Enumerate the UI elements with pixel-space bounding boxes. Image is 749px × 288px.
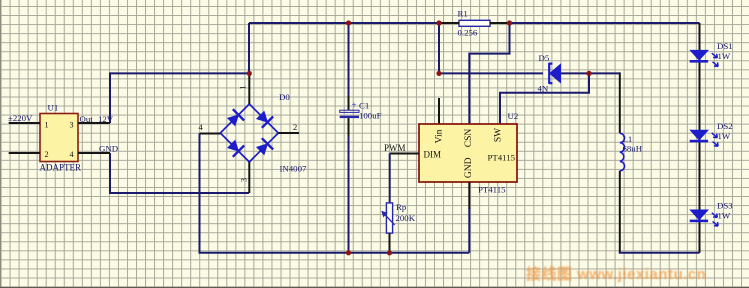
junction ground rail / Rp (387, 250, 392, 255)
adapter U1 (40, 103, 82, 173)
svg-text:L1: L1 (623, 134, 633, 144)
diode D0 lower-left (226, 138, 244, 156)
svg-text:C1: C1 (359, 101, 369, 111)
svg-text:4N: 4N (538, 84, 549, 94)
capacitor C1 (340, 100, 382, 121)
wire C1 pin dark segment (348, 96, 350, 136)
pin U1-2 (9, 152, 40, 154)
svg-text:1W: 1W (718, 211, 731, 221)
pin U2 GND (468, 182, 470, 209)
svg-text:Rp: Rp (396, 202, 407, 212)
wire 12V horizontal (110, 72, 249, 74)
svg-text:1W: 1W (718, 51, 731, 61)
svg-text:200K: 200K (396, 213, 416, 223)
pin Rp bottom (389, 233, 391, 253)
wire CSN branch (469, 23, 510, 124)
svg-text:DS2: DS2 (717, 121, 733, 131)
svg-text:ADAPTER: ADAPTER (40, 162, 82, 172)
svg-text:DS3: DS3 (717, 201, 733, 211)
svg-text:U2: U2 (508, 111, 519, 121)
wire SW branch (500, 73, 590, 124)
junction top rail / C1 (346, 20, 351, 25)
svg-text:PT4115: PT4115 (478, 185, 506, 195)
svg-text:D0: D0 (279, 92, 290, 102)
junction 12V / bridge pin1 (247, 71, 252, 76)
wire top rail (249, 22, 700, 24)
watermark (526, 263, 736, 284)
svg-text:1: 1 (45, 121, 49, 130)
svg-text:2: 2 (293, 122, 297, 132)
wire GND vertical from U1 pin4 (109, 153, 111, 193)
diode D0 upper-left (226, 109, 244, 127)
op chip U2 PT4115 (419, 111, 518, 195)
wire top-left vertical (248, 23, 250, 73)
image border bottom (0, 287, 749, 288)
pin D0-2 (278, 132, 299, 134)
svg-text:4: 4 (70, 150, 74, 159)
pin D0-4 (200, 133, 221, 135)
svg-text:SW: SW (494, 128, 504, 142)
wire C1 branch (348, 23, 350, 253)
svg-text:DIM: DIM (424, 150, 442, 160)
junction top rail / CSN (507, 20, 512, 25)
LED DS3 (690, 201, 734, 226)
svg-text:PWM: PWM (384, 143, 406, 153)
diode D0 lower-right (255, 138, 273, 156)
wire DIM to Rp (389, 154, 391, 204)
svg-text:PT4115: PT4115 (488, 153, 516, 163)
pin U1-4 (78, 152, 110, 154)
svg-text:+: + (352, 100, 357, 110)
ground rail bottom left (199, 134, 470, 253)
svg-text:1W: 1W (718, 131, 731, 141)
svg-text:DS1: DS1 (717, 41, 733, 51)
svg-text:U1: U1 (48, 103, 59, 113)
wire GND to rail (468, 208, 470, 253)
potentiometer Rp (382, 202, 416, 233)
pin U2 DIM (390, 153, 419, 155)
diode D0 upper-right (255, 109, 273, 127)
pin U1-3 (78, 122, 110, 124)
wire 12V vertical (109, 72, 111, 123)
svg-text:R1: R1 (458, 9, 468, 19)
svg-text:68uH: 68uH (623, 144, 643, 154)
svg-text:IN4007: IN4007 (280, 164, 307, 174)
junction D5 / SW (586, 71, 591, 76)
junction top rail / Vin (436, 20, 441, 25)
svg-text:±220V: ±220V (8, 113, 33, 123)
svg-text:3: 3 (239, 178, 249, 182)
svg-text:D5: D5 (539, 53, 550, 63)
wire GND horizontal to bridge pin3 (109, 192, 249, 194)
diode D5 (538, 53, 561, 94)
LED DS1 (690, 41, 733, 66)
svg-text:0.256: 0.256 (458, 28, 478, 38)
pin U1-1 (9, 122, 40, 124)
pin R1 left (439, 22, 459, 24)
pin D0-1 (248, 73, 250, 104)
LED string wire (699, 23, 701, 253)
wire Vin branch (438, 23, 440, 73)
svg-text:CSN: CSN (464, 129, 474, 148)
pin Vin dark segment (438, 98, 440, 124)
svg-text:100uF: 100uF (359, 111, 382, 121)
bridge D0 diamond (220, 104, 278, 162)
LED DS2 (690, 121, 733, 146)
bottom right rail (619, 252, 700, 254)
svg-text:GND: GND (464, 157, 474, 178)
svg-text:Vin: Vin (435, 129, 445, 143)
pin D0-3 (248, 162, 250, 193)
svg-text:2: 2 (45, 150, 49, 159)
wire D5 line (439, 72, 543, 74)
image border left (0, 0, 1, 288)
svg-text:3: 3 (70, 121, 74, 130)
junction Vin / D5 line (436, 71, 441, 76)
pin D5 right / wire to corner (560, 72, 620, 74)
junction ground rail / C1 (346, 250, 351, 255)
svg-text:1: 1 (238, 85, 248, 89)
inductor L1 (620, 133, 643, 171)
wire L1 branch down (619, 72, 621, 252)
pin R1 right (490, 22, 510, 24)
resistor R1 (458, 9, 491, 38)
